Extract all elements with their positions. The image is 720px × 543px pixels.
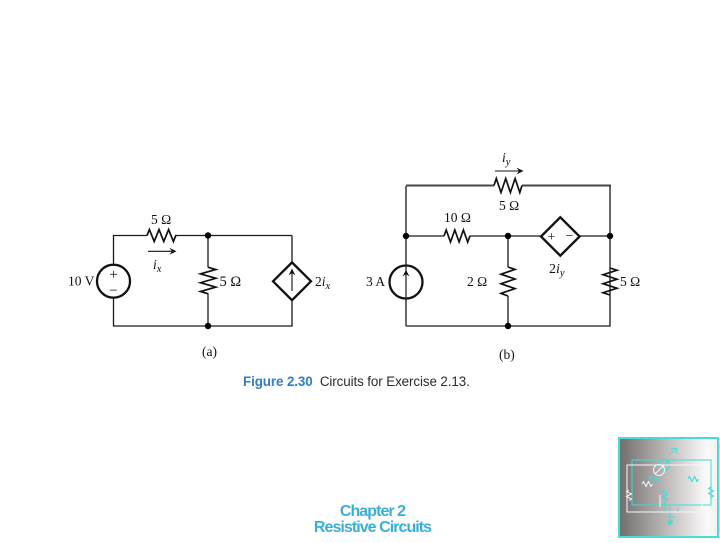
svg-text:5 Ω: 5 Ω <box>151 212 171 227</box>
svg-text:+: + <box>548 230 556 245</box>
svg-text:3 A: 3 A <box>366 274 385 289</box>
svg-text:+: + <box>109 267 117 283</box>
svg-text:5 Ω: 5 Ω <box>499 198 519 213</box>
svg-text:ix: ix <box>153 257 162 275</box>
svg-text:2ix: 2ix <box>315 274 331 292</box>
svg-text:10 V: 10 V <box>68 274 95 289</box>
svg-text:iy: iy <box>502 150 511 168</box>
svg-text:5 Ω: 5 Ω <box>620 274 640 289</box>
svg-text:2 Ω: 2 Ω <box>467 274 487 289</box>
svg-text:5 Ω: 5 Ω <box>220 274 242 290</box>
svg-text:10 Ω: 10 Ω <box>444 210 471 225</box>
svg-text:2iy: 2iy <box>549 262 565 279</box>
svg-text:(b): (b) <box>499 347 515 362</box>
svg-text:(a): (a) <box>202 344 217 359</box>
svg-text:−: − <box>109 283 117 299</box>
svg-text:−: − <box>566 229 574 244</box>
